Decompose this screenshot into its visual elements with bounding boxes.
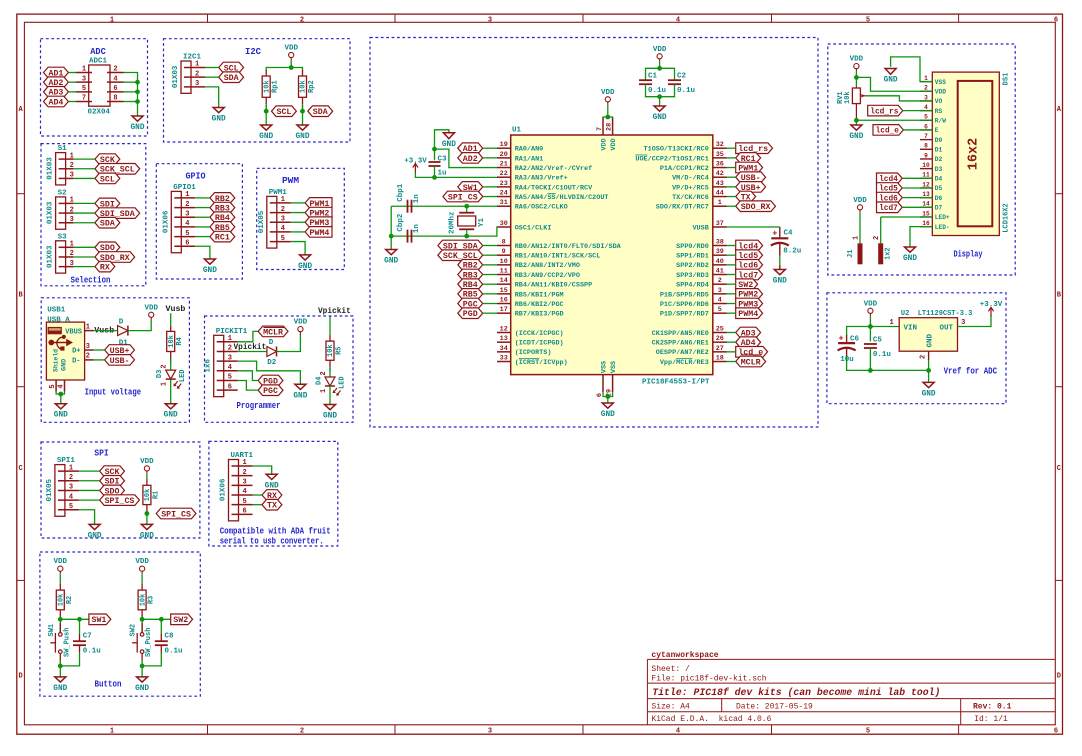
svg-text:C5: C5 — [873, 337, 883, 345]
global label lcd7 — [877, 202, 903, 213]
global label SDI (S2) — [95, 198, 120, 209]
diode D1 — [118, 318, 129, 347]
wire lcd6 to LCD pin13 — [902, 197, 932, 199]
svg-text:10: 10 — [922, 162, 930, 169]
wire R2 to node — [58, 617, 63, 635]
Vref section title — [944, 366, 998, 377]
diode D2 — [267, 339, 277, 367]
svg-text:10k: 10k — [144, 489, 152, 502]
svg-text:MCLR: MCLR — [741, 357, 762, 367]
svg-text:1n: 1n — [413, 194, 421, 204]
svg-text:1: 1 — [86, 323, 90, 331]
svg-text:OSC1/CLKI: OSC1/CLKI — [515, 224, 552, 232]
svg-text:12: 12 — [922, 181, 930, 188]
svg-text:KiCad E.D.A. kicad 4.0.6: KiCad E.D.A. kicad 4.0.6 — [651, 715, 771, 724]
svg-text:VDD: VDD — [284, 45, 298, 53]
ground PWM1 — [298, 255, 312, 271]
global label AD2 — [44, 77, 69, 88]
svg-text:12: 12 — [500, 326, 508, 334]
wire lcd_e to LCD pin6 — [903, 129, 932, 131]
svg-text:GND: GND — [298, 263, 312, 271]
wire U1 to PWM2 — [727, 293, 736, 295]
svg-text:1: 1 — [70, 197, 74, 205]
svg-text:SW1: SW1 — [48, 624, 56, 637]
svg-text:GND: GND — [903, 255, 917, 263]
global label SCL (S1) — [95, 173, 120, 184]
svg-text:1: 1 — [195, 61, 199, 69]
svg-text:GND: GND — [130, 124, 144, 132]
wire U1 to PWM3 — [727, 303, 736, 305]
svg-text:15: 15 — [500, 287, 508, 295]
svg-text:D: D — [18, 673, 22, 681]
svg-text:D0: D0 — [935, 137, 943, 144]
svg-text:Rp2: Rp2 — [308, 80, 316, 93]
svg-text:SPI_CS: SPI_CS — [448, 192, 478, 202]
wire D4 to GND — [329, 386, 331, 405]
svg-text:S3: S3 — [58, 233, 68, 241]
wire U1 to lcd4 — [727, 245, 736, 247]
svg-text:GND: GND — [849, 133, 863, 141]
svg-text:D4: D4 — [316, 377, 324, 385]
svg-text:SDO/RX/DT/RC7: SDO/RX/DT/RC7 — [656, 204, 709, 212]
svg-text:GND: GND — [601, 411, 615, 419]
wire SPI1 pin4 to SPI_CS — [79, 499, 100, 501]
svg-text:13: 13 — [922, 191, 930, 198]
wire S2 pin2 to SDI_SDA — [74, 212, 95, 214]
wire PICKIT1 pin5 to PGC — [238, 380, 258, 390]
power VDD (LCD) — [850, 56, 864, 72]
wire UART1 pin1 to GND — [253, 466, 272, 474]
svg-text:4: 4 — [69, 493, 73, 501]
svg-text:(ICPORTS): (ICPORTS) — [515, 349, 552, 357]
global label RB5 (GPIO) — [210, 222, 235, 233]
global label RX (S3) — [95, 261, 115, 272]
svg-text:GND: GND — [60, 359, 68, 371]
global label PWM2 (PWM header) — [305, 207, 332, 218]
svg-text:5: 5 — [185, 230, 189, 238]
svg-text:10k: 10k — [139, 594, 147, 607]
wire U1 to SW2 — [727, 283, 736, 285]
svg-text:16x2: 16x2 — [967, 138, 982, 170]
global label SDA at Rp2 — [308, 106, 333, 117]
svg-text:35: 35 — [716, 151, 724, 159]
power +3.3V (Vref+) — [404, 157, 427, 172]
global label SDO (SPI) — [100, 485, 125, 496]
global label SCK_SCL (S1) — [95, 164, 140, 175]
connector SPI1 01X05 — [46, 457, 79, 516]
wire C5 C6 bottoms and U2 GND to GND — [847, 348, 931, 382]
svg-text:ADC: ADC — [90, 46, 106, 57]
svg-text:2: 2 — [873, 236, 881, 240]
global label RB5 (U1 RB5) — [458, 289, 483, 300]
global label SCL (I2C) — [219, 62, 244, 73]
wire R3 to node — [140, 617, 145, 635]
net label Vpickit (PICKIT1) — [234, 344, 267, 352]
svg-text:GPIO1: GPIO1 — [173, 184, 196, 192]
global label TX (UART) — [262, 499, 282, 510]
wire S1 pin1 to SCK — [74, 158, 95, 160]
svg-text:Cbp1: Cbp1 — [397, 183, 405, 202]
svg-text:PWM4: PWM4 — [310, 228, 330, 238]
wire C7 bottom to GND node — [60, 645, 79, 666]
wire RB4 to U1 — [483, 283, 497, 285]
svg-text:Selection: Selection — [71, 275, 111, 286]
Display section title — [954, 248, 983, 259]
svg-text:Rev: 0.1: Rev: 0.1 — [973, 703, 1012, 712]
wire I2C1 pin2 to SDA — [205, 76, 219, 78]
wire C1 C2 bottoms to GND — [646, 84, 675, 106]
global label lcd_rs — [868, 105, 903, 116]
global label lcd_rs (U1 right) — [736, 143, 773, 154]
svg-text:VDD: VDD — [653, 46, 667, 54]
global label lcd_e — [873, 125, 903, 136]
svg-text:VDD: VDD — [294, 319, 308, 327]
svg-text:PWM: PWM — [282, 175, 299, 186]
svg-text:D4: D4 — [935, 176, 943, 183]
svg-text:MCLR: MCLR — [263, 327, 284, 337]
svg-text:10k: 10k — [327, 344, 335, 357]
svg-text:Id: 1/1: Id: 1/1 — [974, 715, 1008, 724]
svg-text:Button: Button — [95, 679, 122, 690]
svg-text:Vpp/MCLR/RE3: Vpp/MCLR/RE3 — [660, 359, 709, 367]
svg-text:10k: 10k — [300, 80, 308, 93]
svg-text:Programmer: Programmer — [237, 400, 281, 411]
wire SPI1 pin3 to SDO — [79, 489, 100, 491]
U1 right pins — [635, 141, 726, 367]
wire SCK_SCL to U1 — [483, 254, 497, 256]
svg-text:SDA: SDA — [100, 219, 116, 229]
svg-text:01X05: 01X05 — [258, 210, 266, 233]
svg-text:01X06: 01X06 — [162, 210, 170, 233]
svg-text:SW1: SW1 — [92, 615, 107, 625]
ground Rp1 — [259, 125, 273, 141]
svg-text:1: 1 — [110, 728, 114, 736]
svg-text:U1: U1 — [512, 127, 522, 135]
wire U1 to USB- — [727, 176, 736, 178]
global label PWM4 (PWM header) — [305, 227, 332, 238]
svg-text:39: 39 — [716, 248, 724, 256]
svg-text:20: 20 — [500, 151, 508, 159]
wire RV1 wiper to LCD pin3 VO — [866, 96, 932, 101]
svg-text:25: 25 — [716, 326, 724, 334]
svg-text:VSS: VSS — [610, 361, 618, 373]
svg-text:2: 2 — [920, 355, 928, 359]
svg-text:0.1u: 0.1u — [165, 648, 183, 656]
global label SDA (S2) — [95, 217, 120, 228]
power VDD (input voltage) — [144, 304, 158, 320]
global label PWM1 (PWM header) — [305, 198, 332, 209]
global label lcd5 (U1 right) — [736, 250, 763, 261]
ground I2C1 — [212, 108, 226, 124]
wire U2 OUT to +3.3V — [958, 315, 992, 327]
connector S3 01X03 — [47, 233, 74, 273]
svg-text:GND: GND — [323, 413, 337, 421]
wire OSC1 pin30 to crystal bottom — [391, 227, 497, 239]
global label SPI_CS (SPI) — [100, 495, 140, 506]
Selection section title — [71, 275, 111, 286]
U1 left pins — [497, 141, 622, 367]
svg-text:RB7/KBI3/PGD: RB7/KBI3/PGD — [515, 311, 564, 319]
svg-text:3: 3 — [86, 343, 90, 351]
capacitor C1 0.1u — [639, 73, 666, 96]
svg-text:4: 4 — [228, 364, 232, 372]
svg-text:GND: GND — [203, 267, 217, 275]
svg-text:31: 31 — [500, 199, 508, 207]
svg-text:GND: GND — [265, 482, 279, 490]
svg-text:5: 5 — [281, 235, 285, 243]
svg-text:9: 9 — [502, 248, 506, 256]
crystal Y1 20Mhz — [448, 206, 486, 236]
svg-text:24: 24 — [500, 190, 508, 198]
wire S3 pin1 to SDO — [74, 246, 95, 248]
svg-text:GND: GND — [653, 114, 667, 122]
global label lcd5 — [877, 183, 903, 194]
global label TX (U1 right) — [736, 191, 756, 202]
svg-text:OUT: OUT — [939, 324, 953, 332]
svg-text:D2: D2 — [935, 156, 943, 163]
svg-text:7: 7 — [82, 95, 86, 103]
wire PWM1 pin5 to GND — [291, 242, 305, 255]
svg-text:UART1: UART1 — [231, 452, 254, 460]
svg-text:R5: R5 — [336, 346, 344, 354]
wire VDD to C1 C2 tops — [646, 62, 675, 80]
svg-text:R/W: R/W — [935, 117, 946, 124]
ground UART1 — [265, 474, 279, 490]
global label RB3 (GPIO) — [210, 202, 235, 213]
connector 1x2 pin 2 (backlight) — [873, 217, 932, 264]
PWM section title — [282, 175, 299, 186]
svg-text:4: 4 — [113, 75, 117, 83]
wire U1 to MCLR — [727, 361, 736, 363]
wire U1 to AD3 — [727, 332, 736, 334]
svg-text:SDA: SDA — [224, 73, 240, 83]
svg-text:VDD: VDD — [850, 56, 864, 64]
wire VDD to R2 — [59, 574, 61, 583]
svg-text:RB4/AN11/KBI0/CSSPP: RB4/AN11/KBI0/CSSPP — [515, 282, 593, 290]
wire PICKIT1 pin4 to PGD — [238, 371, 258, 381]
global label SDI_SDA (S2) — [95, 208, 140, 219]
svg-text:T1OSO/T13CKI/RC0: T1OSO/T13CKI/RC0 — [644, 146, 709, 154]
connector J1 pin (backlight) — [847, 213, 863, 264]
svg-text:01X03: 01X03 — [47, 245, 55, 268]
wire AD2 to ADC1 — [68, 81, 76, 83]
svg-text:D1: D1 — [935, 146, 943, 153]
connector ADC1 02X04 — [76, 58, 124, 117]
svg-text:GND: GND — [922, 390, 936, 398]
svg-text:USB-: USB- — [110, 356, 130, 366]
svg-text:26: 26 — [716, 335, 724, 343]
svg-text:11: 11 — [500, 268, 508, 276]
ADC section box — [41, 39, 148, 136]
net label Vpickit (R5 top) — [318, 308, 351, 316]
wire crystal caps left to GND — [389, 206, 394, 249]
svg-text:2: 2 — [86, 353, 90, 361]
switch SW2 SW_Push — [130, 623, 154, 661]
wire R4 to LED D3 — [170, 359, 172, 371]
svg-text:7: 7 — [924, 133, 928, 140]
svg-text:6: 6 — [228, 383, 232, 391]
wire SPI_CS to pin24 — [483, 196, 497, 198]
svg-text:SW_Push: SW_Push — [145, 628, 153, 657]
Selection section box — [41, 144, 146, 286]
global label SW2 (U1 right) — [736, 279, 758, 290]
wire VDD to R1 — [146, 474, 148, 479]
svg-text:VSS: VSS — [935, 79, 946, 86]
wire SPI1 pin5 to GND — [79, 510, 95, 525]
Programmer section title — [237, 400, 281, 411]
global label PWM3 (U1 right) — [736, 298, 763, 309]
svg-text:ADC1: ADC1 — [89, 58, 108, 66]
svg-text:4: 4 — [185, 220, 189, 228]
title block — [647, 651, 1055, 725]
wire ADC1 right pins to GND — [124, 73, 140, 117]
capacitor Cbp1 1n — [397, 183, 421, 213]
USB connector USB1 USB_A — [46, 306, 93, 391]
svg-text:1: 1 — [185, 191, 189, 199]
svg-text:Vpickit: Vpickit — [318, 308, 351, 316]
svg-text:PWM1: PWM1 — [269, 189, 288, 197]
wire AD3 to ADC1 — [68, 91, 76, 93]
GPIO section title — [186, 171, 206, 182]
ground SPI1 — [88, 524, 102, 540]
wire VDD to LCD pin2 and RV1 — [854, 72, 932, 92]
global label RB4 (GPIO) — [210, 212, 235, 223]
svg-text:3: 3 — [228, 354, 232, 362]
svg-text:RC1: RC1 — [215, 232, 230, 242]
global label AD3 — [44, 87, 69, 98]
resistor R5 10k — [326, 335, 344, 371]
svg-text:5: 5 — [718, 306, 722, 314]
Button section title — [95, 679, 122, 690]
svg-text:(ICCK/ICPGC): (ICCK/ICPGC) — [515, 330, 564, 338]
power VDD (LCD backlight) — [853, 197, 867, 213]
svg-text:GND: GND — [926, 333, 934, 347]
global label RB3 (U1 RB3) — [458, 269, 483, 280]
wire LCD pin1 to GND — [891, 57, 933, 82]
microcontroller U1 PIC18F4553-I/PT body — [511, 127, 713, 387]
power VDD (SW2 pullup) — [135, 558, 149, 574]
svg-text:11: 11 — [922, 172, 930, 179]
svg-text:8: 8 — [113, 95, 117, 103]
svg-text:LCD16X2: LCD16X2 — [1003, 203, 1011, 232]
svg-text:RA2/AN2/Vref-/CVref: RA2/AN2/Vref-/CVref — [515, 165, 593, 173]
global label SDI_SDA (U1 RB0) — [438, 240, 483, 251]
svg-text:6: 6 — [185, 239, 189, 247]
wire U1 to lcd7 — [727, 274, 736, 276]
svg-text:C3: C3 — [438, 156, 448, 164]
svg-text:LED-: LED- — [935, 224, 950, 231]
wire PICKIT1 pin3 to GND — [238, 361, 301, 384]
regulator U2 LT1129CST-3.3 — [889, 310, 972, 360]
resistor R4 10k — [167, 326, 185, 363]
svg-text:1u: 1u — [438, 170, 447, 178]
svg-text:3: 3 — [69, 484, 73, 492]
svg-text:5: 5 — [228, 374, 232, 382]
wire PICKIT1 pin2 to diode D2 — [238, 350, 267, 352]
svg-text:R4: R4 — [176, 337, 184, 345]
global label SCK_SCL (U1 RB1) — [438, 250, 483, 261]
wire VUSB pin37 to C4 — [727, 226, 780, 228]
svg-text:P1C/SPP6/RD6: P1C/SPP6/RD6 — [660, 301, 709, 309]
wire Rp2 bottom node — [300, 105, 305, 125]
svg-text:P1B/SPP5/RD5: P1B/SPP5/RD5 — [660, 291, 709, 299]
svg-text:3: 3 — [195, 80, 199, 88]
svg-text:VDD: VDD — [853, 197, 867, 205]
global label SCL at Rp1 — [272, 106, 297, 117]
svg-text:VP/D+/RC5: VP/D+/RC5 — [672, 184, 709, 192]
svg-text:VDD: VDD — [601, 89, 615, 97]
svg-text:SPP3/RD3: SPP3/RD3 — [676, 272, 709, 280]
net label Vusb (R4 top) — [166, 304, 186, 314]
global label SPI_CS (pullup) — [156, 508, 196, 519]
global label SDO_RX (U1 right) — [736, 201, 776, 212]
svg-text:PGC: PGC — [263, 386, 278, 396]
global label PWM1 (U1 right) — [736, 162, 763, 173]
wire GPIO1 pin5 to RC1 — [195, 236, 210, 238]
svg-text:20Mhz: 20Mhz — [448, 211, 456, 234]
svg-text:OESPP/AN7/RE2: OESPP/AN7/RE2 — [656, 349, 709, 357]
resistor R2 10k — [56, 583, 74, 619]
svg-text:R3: R3 — [148, 596, 156, 604]
svg-text:DS1: DS1 — [1003, 73, 1011, 86]
svg-text:C1: C1 — [648, 73, 658, 81]
svg-text:+: + — [772, 228, 777, 238]
SPI section title — [94, 447, 109, 458]
ground C4 — [773, 270, 787, 286]
svg-text:S2: S2 — [58, 189, 68, 197]
global label AD2 (U1) — [458, 153, 483, 164]
svg-text:2: 2 — [113, 66, 117, 74]
svg-text:3: 3 — [281, 215, 285, 223]
svg-text:0.1u: 0.1u — [677, 87, 695, 95]
power VDD (programmer) — [294, 319, 308, 335]
svg-text:2: 2 — [70, 162, 74, 170]
svg-text:Vref for ADC: Vref for ADC — [944, 366, 998, 377]
wire UART1 pin4 to RX — [253, 494, 263, 496]
wire SW1 to pin23 — [483, 186, 497, 188]
svg-text:1: 1 — [889, 319, 893, 327]
wire U1 to lcd_e — [727, 351, 736, 353]
SPI section box — [41, 442, 200, 538]
svg-text:LED: LED — [179, 369, 187, 382]
LCD display DS1 LCD16X2 body — [932, 72, 1010, 235]
svg-text:D: D — [119, 318, 124, 326]
connector S2 01X03 — [47, 189, 74, 229]
svg-text:4: 4 — [676, 728, 680, 736]
Programmer section box — [205, 316, 354, 422]
svg-text:22: 22 — [500, 170, 508, 178]
wire PWM1 pin4 to PWM4 — [291, 231, 305, 233]
svg-text:RB0/AN12/INT0/FLT0/SDI/SDA: RB0/AN12/INT0/FLT0/SDI/SDA — [515, 243, 622, 251]
svg-text:3: 3 — [70, 260, 74, 268]
Input voltage section box — [41, 298, 189, 423]
wire PGD to U1 — [483, 312, 497, 314]
wire USB1 pin2 to USB- — [94, 359, 105, 361]
svg-text:USB_A: USB_A — [47, 316, 70, 324]
wire PWM1 pin2 to PWM2 — [291, 212, 305, 214]
wire GND to C3 top and RA2 pin21 — [432, 130, 497, 168]
svg-text:02X04: 02X04 — [88, 109, 111, 117]
global label SCK (S1) — [95, 154, 120, 165]
svg-text:GND: GND — [384, 258, 398, 266]
svg-text:C6: C6 — [850, 335, 860, 343]
svg-text:SPI_CS: SPI_CS — [105, 496, 135, 506]
global label USB- — [105, 355, 135, 366]
svg-text:1: 1 — [82, 66, 86, 74]
U1 top VDD pins 7 28 — [596, 118, 618, 151]
svg-text:SPP1/RD1: SPP1/RD1 — [676, 253, 709, 261]
svg-text:1n: 1n — [413, 224, 421, 234]
